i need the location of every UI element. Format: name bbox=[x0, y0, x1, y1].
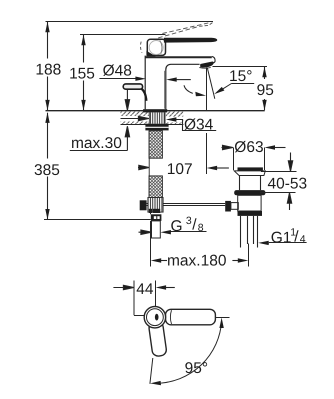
svg-text:Ø48: Ø48 bbox=[103, 62, 132, 79]
arrow down 155 bbox=[81, 100, 85, 111]
knuckle dark wedge bbox=[146, 51, 155, 57]
pull rod knob bbox=[123, 84, 142, 89]
arc bottom arrow bbox=[150, 381, 161, 385]
G3/8 underline bbox=[169, 231, 207, 233]
arrow up 188 top bbox=[45, 22, 49, 33]
knuckle cartridge bbox=[147, 39, 165, 55]
rod left block bbox=[140, 200, 147, 210]
deck hatch right bbox=[166, 112, 183, 125]
fitting end blocks bbox=[149, 209, 152, 213]
svg-text:Ø34: Ø34 bbox=[184, 116, 214, 133]
top view: second lever position bbox=[148, 321, 167, 357]
95 deg arc bbox=[157, 321, 222, 383]
max180 ext right bbox=[248, 244, 250, 267]
hose segment B bbox=[149, 176, 162, 198]
arrow up 385 below deck bbox=[45, 112, 49, 123]
svg-text:max.180: max.180 bbox=[167, 252, 227, 269]
40-53 bottom line bbox=[260, 192, 296, 194]
dim 107 left arrow bbox=[138, 165, 149, 169]
hose gap edge bbox=[148, 158, 150, 176]
faucet spout top edge bbox=[145, 56, 212, 58]
G1 1/4 underline bbox=[269, 242, 307, 244]
15 left arc arrow bbox=[195, 92, 206, 97]
spout underside and inner corner bbox=[166, 64, 200, 109]
nut below deck bbox=[145, 124, 168, 131]
spout right end corner bbox=[212, 56, 215, 63]
knuckle inner arc bbox=[149, 41, 163, 55]
Ø63 dim bbox=[222, 145, 234, 149]
faucet body left edge bbox=[144, 56, 146, 110]
hex nut bbox=[151, 214, 162, 221]
svg-text:95°: 95° bbox=[185, 360, 208, 377]
rod right block bbox=[225, 201, 231, 212]
40-53 top line bbox=[261, 171, 297, 173]
svg-text:188: 188 bbox=[35, 62, 61, 79]
center oval bbox=[155, 314, 159, 321]
arrow down 385 bottom bbox=[45, 209, 49, 220]
bottom extension line 385 bbox=[44, 219, 151, 221]
dim 107 right arrow bbox=[207, 166, 218, 170]
top view: 44 dim line bbox=[113, 285, 133, 289]
15 underline bbox=[231, 83, 254, 85]
drain flange bbox=[234, 171, 265, 176]
dim line 188/385 bbox=[47, 22, 49, 220]
max.30 arrow up bbox=[125, 126, 129, 150]
rod socket bbox=[231, 203, 238, 210]
arrow down 188 deck bbox=[45, 100, 49, 111]
base plate bbox=[143, 109, 167, 112]
max.30 arrow down bbox=[125, 90, 129, 111]
44 ext lines bbox=[134, 281, 156, 316]
deck hatch left bbox=[121, 112, 149, 125]
Ø48 arrow bbox=[135, 77, 146, 81]
max180 right arrow bbox=[238, 258, 249, 262]
svg-text:44: 44 bbox=[136, 281, 154, 298]
drain bottom band bbox=[238, 211, 263, 216]
Ø34 right arrow bbox=[166, 117, 177, 121]
spray vertical line bbox=[206, 68, 208, 111]
knob neck bbox=[141, 89, 146, 101]
dim line 95 bbox=[264, 67, 266, 111]
dashed arc left of knuckle bbox=[140, 42, 142, 53]
hose fitting bbox=[148, 198, 163, 213]
15 right leader bbox=[223, 84, 231, 89]
threads below base bbox=[149, 112, 165, 123]
pop-up rod behind fitting bbox=[147, 204, 226, 206]
lever bar neck seam bbox=[170, 310, 171, 324]
svg-text:95: 95 bbox=[257, 82, 274, 99]
svg-text:G1: G1 bbox=[271, 229, 292, 246]
svg-text:40-53: 40-53 bbox=[268, 175, 308, 192]
svg-text:385: 385 bbox=[34, 162, 60, 179]
lever bar bbox=[164, 38, 217, 43]
Ø48 underline leader bbox=[99, 78, 135, 80]
spout axis extension below deck bbox=[206, 133, 208, 174]
top view: lever bar bbox=[166, 309, 216, 325]
Ø63 ext lines bbox=[234, 148, 265, 171]
tailpipe bbox=[241, 216, 258, 248]
15 right leader arrow bbox=[214, 87, 224, 94]
svg-text:G: G bbox=[171, 218, 183, 235]
95 deg reference line bbox=[215, 317, 229, 319]
drain seal band bbox=[234, 190, 265, 195]
drain body bbox=[238, 195, 261, 211]
svg-text:8: 8 bbox=[198, 222, 204, 234]
extension line 155 bbox=[80, 34, 166, 36]
dashed raised lever line 1 bbox=[158, 26, 199, 38]
aerator bbox=[200, 62, 214, 68]
max.30 underline bbox=[70, 150, 128, 152]
svg-text:Ø63: Ø63 bbox=[234, 139, 263, 156]
drain neck bbox=[240, 176, 261, 191]
svg-text:3: 3 bbox=[186, 215, 192, 227]
Ø48 right arrow bbox=[166, 77, 177, 81]
G1 1/4 leader arrow bbox=[258, 241, 269, 245]
arc top arrow bbox=[219, 318, 223, 329]
G3/8 arrows bbox=[139, 230, 152, 234]
supply pipe G3/8 bbox=[152, 221, 161, 238]
arrow up 95 bbox=[262, 67, 266, 78]
40-53 dim arrows bbox=[288, 153, 292, 172]
svg-text:4: 4 bbox=[300, 233, 306, 245]
svg-text:max.30: max.30 bbox=[71, 135, 122, 152]
arrow down 95 bbox=[262, 100, 266, 111]
svg-text:15°: 15° bbox=[229, 68, 252, 85]
drain plug bar bbox=[238, 167, 263, 171]
Ø34 left arrow bbox=[121, 116, 149, 120]
svg-text:155: 155 bbox=[69, 66, 95, 83]
svg-text:107: 107 bbox=[167, 161, 193, 178]
max180 ext left bbox=[150, 213, 152, 267]
inner edge highlight bbox=[163, 71, 165, 109]
max180 left arrow bbox=[151, 258, 162, 262]
aerator rim bbox=[199, 67, 210, 70]
deck line bbox=[46, 110, 265, 112]
dim line 155 bbox=[83, 35, 85, 111]
hose segment A bbox=[149, 131, 162, 158]
dashed raised lever line 2 bbox=[162, 23, 209, 34]
deck bottom line bbox=[121, 124, 184, 126]
top extension line bbox=[46, 21, 214, 23]
arrow up 155 bbox=[81, 35, 85, 46]
top view: cartridge circle bbox=[144, 307, 165, 328]
white slot for Ø34 arrows bbox=[120, 116, 149, 122]
spray 15 deg line bbox=[207, 68, 215, 99]
lever axis line bbox=[150, 358, 153, 384]
aerator level extension bbox=[213, 66, 268, 68]
dashed lever tip bbox=[199, 22, 214, 27]
15 left arc bbox=[184, 85, 193, 93]
